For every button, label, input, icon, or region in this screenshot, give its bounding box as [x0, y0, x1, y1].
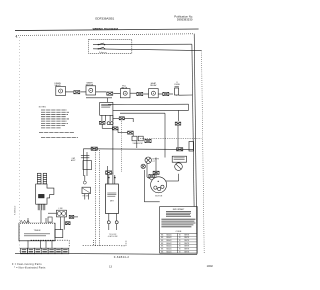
svg-text:L SW: L SW — [58, 208, 62, 210]
svg-text:TIMER: TIMER — [34, 230, 41, 232]
svg-text:WHITE: WHITE — [184, 240, 189, 242]
svg-text:F-62844-2: F-62844-2 — [114, 255, 130, 259]
svg-text:F = Fast-moving Parts: F = Fast-moving Parts — [12, 263, 42, 266]
svg-text:F-62844-2: F-62844-2 — [15, 205, 17, 215]
svg-text:WHITE: WHITE — [184, 246, 189, 248]
svg-text:WHITE: WHITE — [184, 249, 189, 251]
svg-text:F door sw.: F door sw. — [99, 51, 107, 54]
svg-text:WIRING DIAGRAM: WIRING DIAGRAM — [93, 27, 119, 31]
svg-text:MTR: MTR — [110, 200, 115, 202]
svg-text:WHITE: WHITE — [184, 234, 189, 236]
svg-text:RELAY: RELAY — [150, 84, 157, 87]
svg-text:* = Non-illustrated Parts: * = Non-illustrated Parts — [14, 267, 46, 270]
svg-text:THE SW: THE SW — [82, 196, 89, 198]
svg-text:NOTES:: NOTES: — [39, 107, 47, 109]
svg-text:CODE: CODE — [176, 231, 182, 233]
svg-text:WHITE: WHITE — [184, 243, 189, 245]
svg-text:WHITE: WHITE — [184, 237, 189, 239]
svg-text:10/02: 10/02 — [207, 265, 214, 268]
svg-text:OT: OT — [153, 161, 155, 163]
svg-text:GDF336ASB1: GDF336ASB1 — [95, 17, 114, 21]
svg-text:WHITE: WHITE — [184, 251, 189, 253]
svg-text:5995383530: 5995383530 — [177, 18, 193, 22]
svg-text:TO DOOR: TO DOOR — [109, 234, 117, 236]
svg-text:MOTOR: MOTOR — [155, 195, 163, 197]
svg-text:FUSE: FUSE — [175, 84, 181, 86]
svg-text:VALVE: VALVE — [121, 86, 128, 89]
svg-text:IMPORTANT: IMPORTANT — [173, 208, 185, 211]
